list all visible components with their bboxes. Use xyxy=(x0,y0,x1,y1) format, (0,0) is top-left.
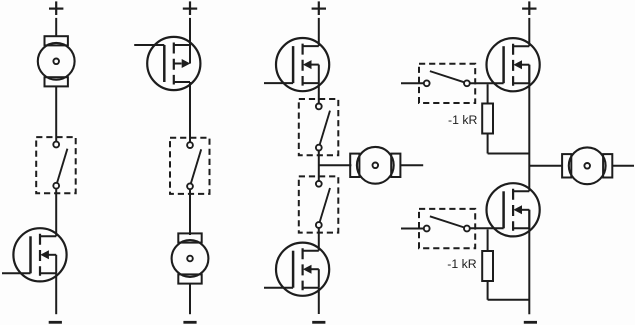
MOSFET Q5 (n-channel, circle envelope) xyxy=(470,38,540,91)
wire Q6 source to ground (through node) xyxy=(528,210,530,314)
wire input stub to switch S5 xyxy=(401,228,424,230)
wire motor M1 to switch S1 xyxy=(55,86,57,143)
switch S3b (dashed enclosure, open) xyxy=(299,176,339,232)
wire motor M3 output stub xyxy=(400,164,423,166)
label -1 kR for R1 xyxy=(448,113,477,127)
motor M3 (DC motor, horizontal) xyxy=(350,147,400,184)
wire Q3 source to switch S3a xyxy=(318,83,320,103)
MOSFET Q3 (n-channel, circle envelope) xyxy=(264,38,329,91)
resistor R2 xyxy=(482,251,493,281)
MOSFET Q1 (n-channel, circle envelope) xyxy=(2,228,67,281)
wire node A to motor M3 xyxy=(319,164,352,166)
label -1 kR for R2 xyxy=(447,257,476,271)
switch S3a (dashed enclosure, open) xyxy=(299,99,339,155)
ground of branch 3 xyxy=(312,321,325,324)
wire Q5 source rail down to Q6 drain (through nodes) xyxy=(528,65,530,192)
supply + terminal of branch 2 xyxy=(183,1,197,15)
wire resistor R1 to source rail xyxy=(487,134,489,154)
ground of branch 2 xyxy=(183,321,196,324)
svg-text:-1 kR: -1 kR xyxy=(447,257,476,271)
wire resistor R1 return to Q5 source xyxy=(488,153,530,155)
MOSFET Q6 (n-channel, circle envelope) xyxy=(470,183,540,236)
motor M2 (DC motor, vertical) xyxy=(172,233,209,283)
switch S2 (dashed enclosure, open) xyxy=(170,138,210,194)
wire switch S1 to Q1 drain xyxy=(55,189,57,236)
wire Q4 source to ground xyxy=(318,288,320,314)
MOSFET Q4 (n-channel, circle envelope) xyxy=(264,243,329,296)
motor M4 (DC motor, horizontal) xyxy=(562,147,612,184)
wire supply to Q3 drain xyxy=(318,18,320,46)
wire supply to Q5 drain xyxy=(528,18,530,46)
wire switch S3a to switch S3b through node A xyxy=(318,151,320,181)
wire resistor R2 to source rail xyxy=(487,281,489,300)
MOSFET Q2 (p-channel, circle envelope) xyxy=(134,37,200,90)
wire supply to motor M1 xyxy=(55,18,57,37)
wire Q1 source to ground xyxy=(55,273,57,314)
wire switch S2 to motor M2 xyxy=(189,190,191,235)
wire resistor R2 return to Q6 source xyxy=(488,299,530,301)
wire input stub to switch S4 xyxy=(401,82,424,84)
wire output node B to motor M4 xyxy=(529,165,562,167)
wire Q6 gate node down to resistor R2 xyxy=(487,229,489,251)
wire motor M4 output stub xyxy=(612,165,634,167)
wire Q2 drain to switch S2 xyxy=(189,82,191,143)
resistor R1 xyxy=(482,104,493,134)
wire supply to Q2 source xyxy=(189,18,191,45)
motor M1 (DC motor, vertical) xyxy=(38,36,75,86)
switch S5 (dashed enclosure, open) xyxy=(419,209,475,248)
supply + terminal of branch 1 xyxy=(49,1,63,15)
wire motor M2 to ground xyxy=(189,283,191,314)
supply + terminal of bridge branch xyxy=(522,1,536,15)
wire Q5 gate node down to resistor R1 xyxy=(487,84,489,104)
switch S1 (dashed enclosure, open) xyxy=(36,137,75,193)
wire switch S3b to Q4 drain xyxy=(318,228,320,251)
switch S4 (dashed enclosure, open) xyxy=(419,64,475,103)
supply + terminal of branch 3 xyxy=(312,1,326,15)
svg-text:-1 kR: -1 kR xyxy=(448,113,477,127)
ground of bridge branch xyxy=(524,321,537,324)
ground of branch 1 xyxy=(49,321,62,324)
